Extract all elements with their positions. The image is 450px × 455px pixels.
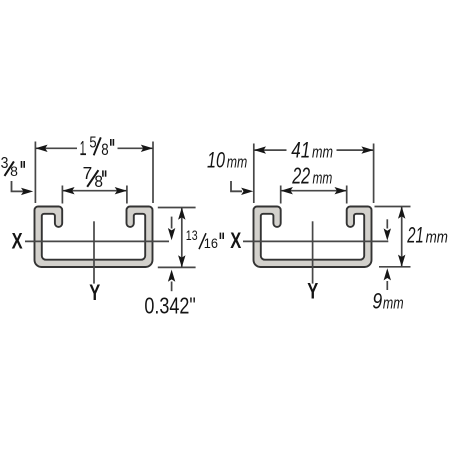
svg-text:Y: Y [89,280,100,305]
svg-text:10: 10 [207,148,225,173]
svg-text:9: 9 [372,289,382,314]
svg-text:21: 21 [407,223,424,248]
svg-text:mm: mm [313,169,333,187]
svg-text:X: X [12,228,23,253]
svg-text:16: 16 [204,236,218,251]
svg-text:8: 8 [10,164,18,179]
svg-text:mm: mm [312,142,333,161]
svg-text:1: 1 [80,138,86,160]
svg-text:mm: mm [426,228,448,247]
svg-text:Y: Y [307,278,318,303]
svg-text:22: 22 [291,162,310,188]
svg-text:0.342": 0.342" [144,292,195,318]
svg-text:41: 41 [291,137,310,162]
svg-text:mm: mm [383,294,404,313]
svg-text:3: 3 [1,155,9,172]
svg-text:X: X [230,228,241,253]
svg-text:8: 8 [94,173,103,191]
svg-text:13: 13 [186,228,198,243]
svg-text:8: 8 [101,141,108,159]
svg-text:mm: mm [227,153,248,172]
